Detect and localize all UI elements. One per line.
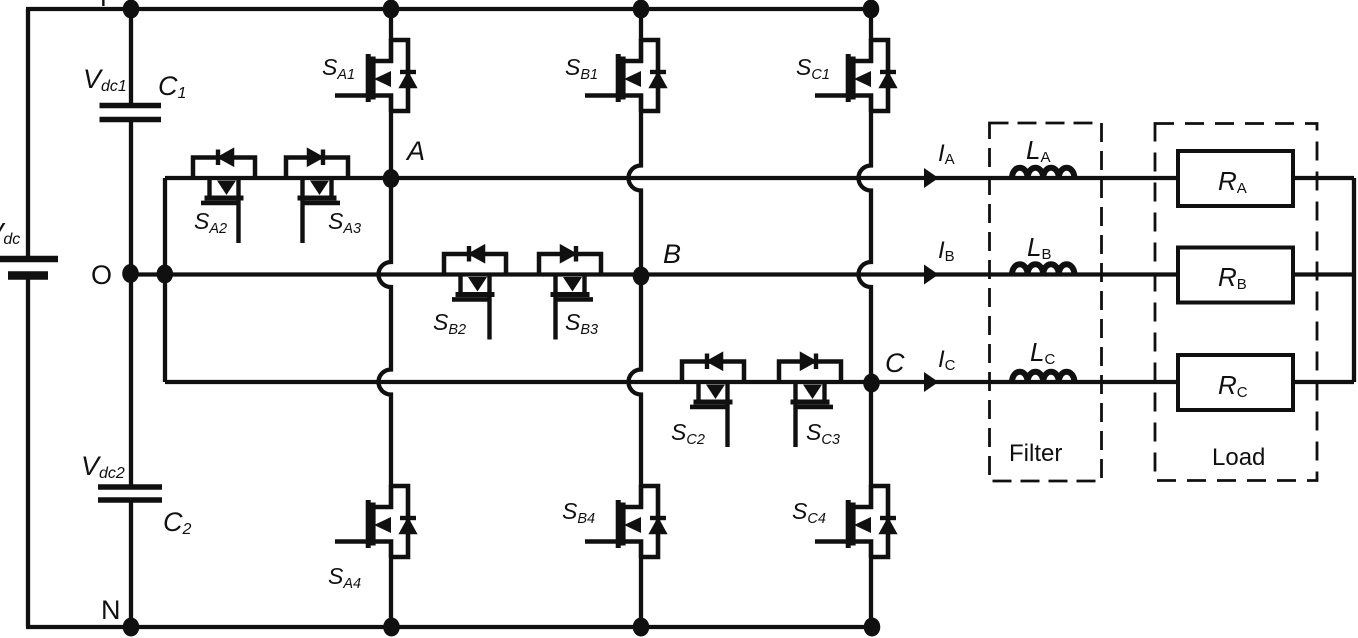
- svg-text:B: B: [663, 239, 681, 269]
- wire leg B mid with crossover hops at rows A and C: [629, 112, 642, 486]
- wire leg A mid with crossover hops at rows B and C: [379, 112, 392, 486]
- transistor SA2: [193, 150, 255, 244]
- wire DC-link bus middle (C1 to O to C2): [129, 120, 133, 487]
- wire leg A upper: [389, 9, 393, 40]
- wire row C (neutral branch to phase C output): [165, 380, 1178, 384]
- wire leg C mid with crossover hops at rows A and B: [859, 112, 872, 486]
- svg-text:A: A: [405, 136, 425, 166]
- wire top rail P: [26, 7, 871, 11]
- wire left outer vertical (battery branch, lower): [26, 279, 30, 627]
- arrow current IA: [924, 168, 939, 188]
- node dot top rail leg B: [633, 0, 650, 19]
- svg-text:Load: Load: [1212, 444, 1265, 471]
- transistor SA1: [335, 39, 416, 112]
- wire row C to load common: [1293, 380, 1354, 384]
- Filter dashed box: [990, 123, 1102, 481]
- battery Vdc (left edge): [0, 259, 58, 276]
- node dot bottom rail leg B: [633, 618, 650, 637]
- node N junction dot: [123, 618, 140, 637]
- wire bottom rail N: [26, 625, 871, 629]
- transistor SB1: [585, 39, 666, 112]
- node dot top rail leg C: [863, 0, 880, 19]
- inductor LC: [1012, 372, 1074, 382]
- node dot bottom rail leg C: [864, 618, 881, 637]
- wire row B to load common: [1293, 272, 1354, 276]
- node O junction dot: [122, 264, 139, 283]
- svg-text:P: P: [100, 0, 117, 12]
- arrow current IB: [924, 265, 939, 285]
- node dot bottom rail leg A: [383, 618, 400, 637]
- transistor SB2: [444, 246, 506, 340]
- wire leg B upper: [639, 9, 643, 40]
- svg-text:O: O: [91, 260, 112, 290]
- transistor SC1: [815, 39, 896, 112]
- wire left outer vertical (battery branch, upper): [26, 9, 30, 256]
- wire row B (neutral rail O to phase B output): [131, 272, 1178, 276]
- resistor RA: [1178, 151, 1293, 206]
- wire row A to load common: [1293, 176, 1354, 180]
- wire leg C lower: [869, 558, 873, 627]
- transistor SA4: [335, 485, 416, 558]
- wire DC-link bus lower (C2 to N): [129, 500, 133, 627]
- wire DC-link bus upper (P to C1): [129, 9, 133, 105]
- transistor SB3: [539, 246, 601, 340]
- svg-text:C: C: [885, 348, 905, 378]
- transistor SC4: [815, 485, 896, 558]
- transistor SC3: [779, 354, 841, 448]
- capacitor C1: [100, 106, 162, 120]
- node dot top rail leg A: [383, 0, 400, 19]
- wire leg A lower: [389, 558, 393, 627]
- wire midpoint branch vertical: [163, 178, 167, 382]
- svg-text:Filter: Filter: [1009, 440, 1062, 467]
- inductor LB: [1012, 264, 1074, 274]
- resistor RB: [1178, 248, 1293, 303]
- node B junction dot: [633, 267, 650, 286]
- transistor SB4: [585, 485, 666, 558]
- inductor LA: [1012, 168, 1074, 178]
- transistor SC2: [682, 354, 744, 448]
- wire leg B lower: [639, 558, 643, 627]
- svg-text:N: N: [101, 595, 121, 625]
- node dot midpoint branch: [157, 265, 174, 284]
- wire row A (phase A output): [165, 176, 1178, 180]
- resistor RC: [1178, 355, 1293, 410]
- node C junction dot: [863, 374, 880, 393]
- arrow current IC: [924, 372, 939, 392]
- wire load common right vertical: [1352, 178, 1356, 382]
- node P junction dot: [123, 0, 140, 19]
- transistor SA3: [286, 150, 348, 244]
- capacitor C2: [98, 487, 162, 500]
- node A junction dot: [383, 169, 400, 188]
- wire leg C upper: [869, 9, 873, 40]
- Load dashed box: [1155, 124, 1317, 481]
